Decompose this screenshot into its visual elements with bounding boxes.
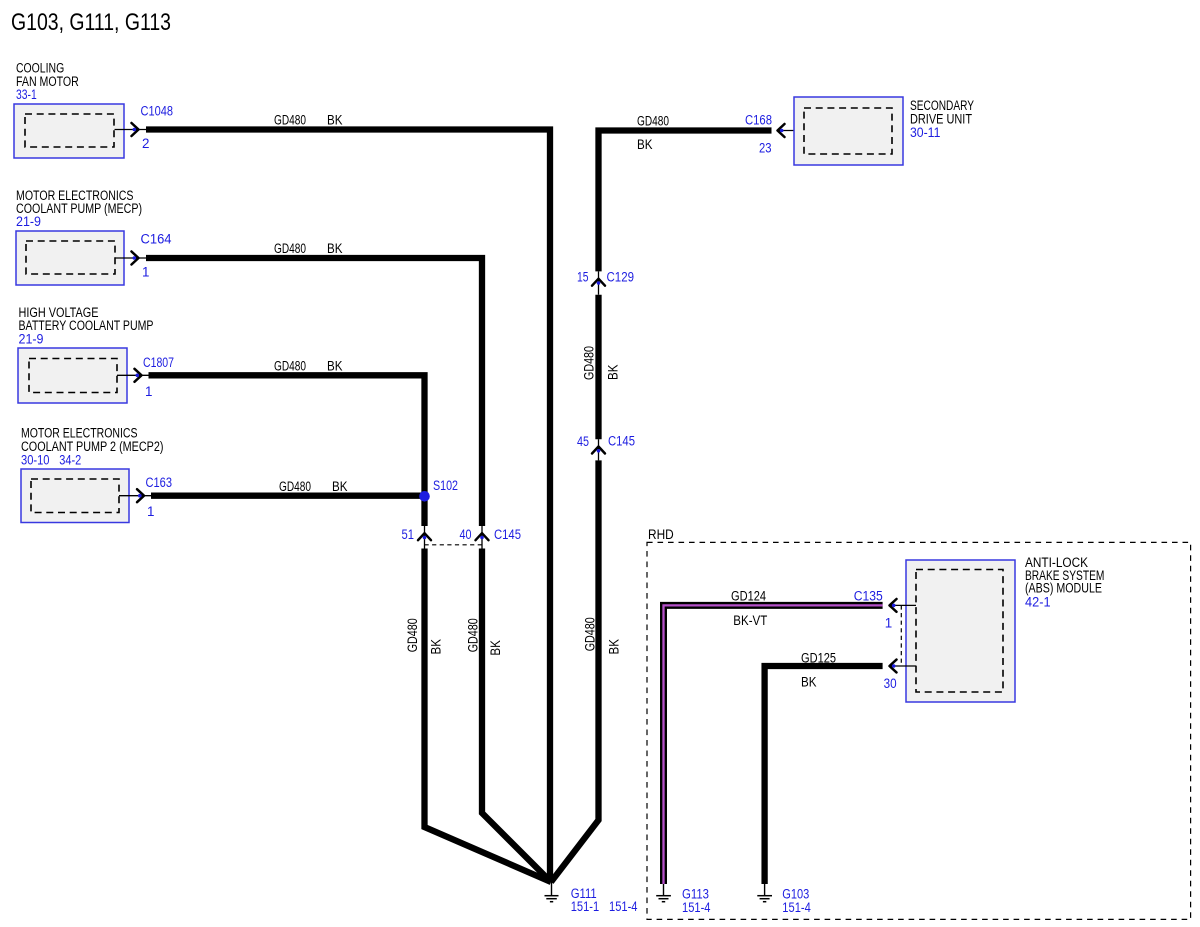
svg-text:GD480: GD480 <box>274 113 306 128</box>
svg-text:BK: BK <box>607 639 622 655</box>
connector C145 pin 40 arrow <box>476 526 489 549</box>
wire GD480 BK from C1048 down to ground G111 <box>146 130 550 883</box>
wire label GD480 BK row 2 <box>274 241 343 256</box>
component MOTOR ELECTRONICS COOLANT PUMP (MECP) label <box>16 188 142 229</box>
svg-text:GD480: GD480 <box>466 618 481 652</box>
svg-text:151-1: 151-1 <box>571 899 600 914</box>
ground G103 label <box>782 887 811 915</box>
svg-text:C145: C145 <box>608 434 635 449</box>
svg-text:BK: BK <box>801 675 817 690</box>
ground G111 label <box>571 886 638 914</box>
connector C135 pin 30 arrow <box>890 660 917 673</box>
svg-text:G103, G111, G113: G103, G111, G113 <box>11 10 171 36</box>
connector C129 pin 15 arrow <box>592 271 605 294</box>
connector C168 pin line and arrow <box>778 124 805 137</box>
svg-text:151-4: 151-4 <box>782 900 811 915</box>
svg-text:GD480: GD480 <box>583 617 598 651</box>
svg-text:151-4: 151-4 <box>609 899 638 914</box>
svg-text:30-11: 30-11 <box>910 125 940 140</box>
svg-text:151-4: 151-4 <box>682 900 711 915</box>
component COOLING FAN MOTOR label <box>16 60 79 102</box>
svg-text:40: 40 <box>460 527 472 542</box>
svg-text:(ABS) MODULE: (ABS) MODULE <box>1025 581 1102 596</box>
wire label GD480 BK row 4 <box>279 479 348 494</box>
connector C145 dashed link between pins 51 and 40 <box>425 544 483 546</box>
svg-text:BK-VT: BK-VT <box>733 613 767 628</box>
connector C145 pin 51 arrow <box>418 526 431 549</box>
svg-text:BK: BK <box>606 364 621 380</box>
connector C135 pin 1 arrow <box>890 599 917 612</box>
svg-text:BK: BK <box>332 479 348 494</box>
svg-text:C164: C164 <box>141 232 173 247</box>
ground G113 symbol <box>656 884 671 902</box>
component SECONDARY DRIVE UNIT label <box>910 98 974 140</box>
wire label GD480 BK row 1 <box>274 113 343 128</box>
svg-text:BK: BK <box>327 359 343 374</box>
connector C164 pin line and arrow <box>115 252 146 265</box>
svg-text:1: 1 <box>885 615 892 630</box>
component MOTOR ELECTRONICS COOLANT PUMP 2 (MECP2) label <box>21 426 164 468</box>
splice S102 <box>419 491 430 502</box>
svg-text:GD480: GD480 <box>582 346 597 380</box>
connector C145 pin 45 arrow <box>592 439 605 460</box>
RHD zone dashed boundary <box>647 542 1191 919</box>
svg-text:C1807: C1807 <box>143 355 174 370</box>
svg-text:C145: C145 <box>494 527 521 542</box>
wire GD124 BK-VT from C135 pin 1 to ground G113 <box>664 605 883 884</box>
component COOLING FAN MOTOR box <box>14 104 124 158</box>
svg-text:BK: BK <box>637 137 653 152</box>
wire D lower label GD480 BK vertical <box>583 617 622 654</box>
svg-text:C129: C129 <box>607 270 635 285</box>
component ANTI-LOCK BRAKE SYSTEM (ABS) MODULE box <box>906 560 1015 702</box>
svg-text:BK: BK <box>429 639 444 655</box>
svg-text:21-9: 21-9 <box>19 331 44 346</box>
svg-text:S102: S102 <box>433 478 458 493</box>
wire D upper label GD480 BK vertical <box>582 346 621 380</box>
svg-text:33-1: 33-1 <box>16 87 37 102</box>
wire GD480 BK from C164 down to connector C145 pin 40 <box>146 258 482 526</box>
svg-text:BK: BK <box>488 640 503 656</box>
svg-text:45: 45 <box>577 434 589 449</box>
wire B label GD480 BK vertical <box>466 618 504 655</box>
svg-text:30-10: 30-10 <box>21 453 50 468</box>
svg-text:C168: C168 <box>745 112 772 127</box>
svg-text:1: 1 <box>142 265 149 280</box>
wire label GD480 BK row 3 <box>274 359 343 374</box>
ground G103 symbol <box>757 884 772 902</box>
svg-text:RHD: RHD <box>648 527 674 542</box>
component ANTI-LOCK BRAKE SYSTEM (ABS) MODULE label <box>1025 555 1104 610</box>
component HIGH VOLTAGE BATTERY COOLANT PUMP box <box>18 348 127 403</box>
svg-text:GD480: GD480 <box>637 114 669 129</box>
svg-text:C135: C135 <box>854 588 883 603</box>
svg-text:BK: BK <box>327 241 343 256</box>
wire GD480 BK from C1807 down to connector C145 pin 51 <box>149 375 425 526</box>
svg-text:1: 1 <box>147 504 154 519</box>
wire GD480 BK from C145 pin 45 down to ground G111 <box>551 460 599 882</box>
svg-text:GD125: GD125 <box>801 650 836 665</box>
svg-text:30: 30 <box>884 676 897 691</box>
svg-text:BK: BK <box>327 113 343 128</box>
svg-text:C1048: C1048 <box>141 104 174 119</box>
wire GD480 BK from C145 pin 40 down to ground G111 <box>482 549 551 883</box>
svg-text:2: 2 <box>142 136 149 151</box>
svg-text:15: 15 <box>577 270 589 285</box>
component MOTOR ELECTRONICS COOLANT PUMP 2 (MECP2) box <box>21 469 129 523</box>
connector C135 dashed link between pins 1 and 30 <box>900 605 902 666</box>
wire GD125 BK from C135 pin 30 to ground G103 <box>765 666 883 884</box>
ground G111 symbol <box>545 882 559 902</box>
wire A label GD480 BK vertical <box>405 618 444 654</box>
svg-text:GD480: GD480 <box>274 241 306 256</box>
svg-text:34-2: 34-2 <box>59 453 81 468</box>
svg-text:GD480: GD480 <box>279 479 311 494</box>
svg-text:23: 23 <box>759 141 772 156</box>
wire GD480 BK from C145 pin 51 down to ground G111 <box>425 549 552 883</box>
svg-text:21-9: 21-9 <box>16 214 41 229</box>
svg-text:51: 51 <box>402 527 415 542</box>
ground G113 label <box>682 887 711 915</box>
svg-text:1: 1 <box>145 384 152 399</box>
wire GD480 BK from C163 to splice S102 <box>151 493 421 499</box>
component SECONDARY DRIVE UNIT box <box>794 97 903 165</box>
svg-text:GD124: GD124 <box>731 588 766 603</box>
connector C163 pin line and arrow <box>119 489 151 502</box>
svg-text:GD480: GD480 <box>405 618 420 652</box>
svg-text:GD480: GD480 <box>274 359 306 374</box>
connector C1048 pin line and arrow <box>115 123 147 136</box>
svg-text:C163: C163 <box>146 475 173 490</box>
component HIGH VOLTAGE BATTERY COOLANT PUMP label <box>19 305 154 346</box>
connector C1807 pin line and arrow <box>117 369 149 382</box>
wire GD480 BK from C168 down to connector C129 <box>599 131 772 272</box>
wire GD480 BK from C129 down to C145 pin 45 <box>595 295 601 440</box>
svg-text:42-1: 42-1 <box>1025 595 1051 610</box>
component MOTOR ELECTRONICS COOLANT PUMP (MECP) box <box>16 231 124 285</box>
